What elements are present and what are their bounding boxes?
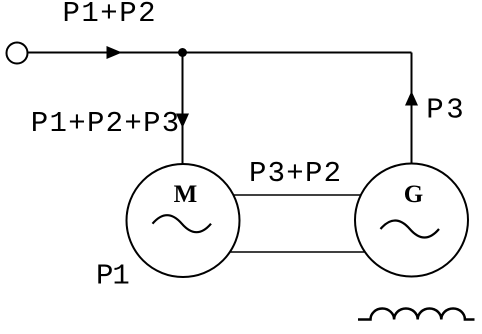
wire: shaft coupling bottom line between M and G — [183, 251, 412, 253]
svg-text:P1: P1 — [96, 260, 130, 293]
svg-text:P3+P2: P3+P2 — [249, 157, 341, 190]
wire: top horizontal bus from input terminal to right corner — [28, 52, 412, 54]
wire: left vertical drop from junction to motor M — [182, 53, 184, 169]
svg-text:P1+P2+P3: P1+P2+P3 — [31, 107, 179, 140]
node: junction dot on top bus — [178, 48, 187, 57]
symbol: AC sine wave inside G — [381, 221, 440, 238]
wire: shaft coupling top line between M and G — [183, 194, 412, 196]
arrow: rightward power-flow arrow on top bus — [107, 46, 123, 59]
arrow: upward power-flow arrow out of G — [405, 91, 418, 106]
machine M: motor circle — [127, 164, 240, 277]
svg-text:G: G — [404, 181, 423, 208]
wire: right vertical riser from generator G to top bus — [411, 53, 413, 169]
inductor: load coil bottom right — [358, 309, 475, 320]
symbol: AC sine wave inside M — [153, 215, 212, 232]
svg-text:P1+P2: P1+P2 — [63, 0, 156, 30]
machine G: generator circle — [355, 164, 468, 277]
arrow: downward power-flow arrow into M — [176, 114, 189, 129]
terminal: input terminal circle — [7, 43, 28, 64]
svg-text:M: M — [174, 181, 198, 208]
